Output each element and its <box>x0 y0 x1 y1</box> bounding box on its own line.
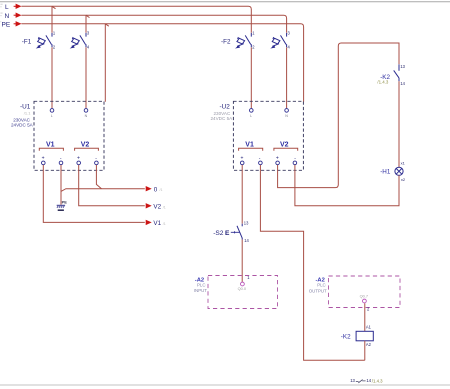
svg-text:/1.1: /1.1 <box>24 111 31 116</box>
xref stub L <box>0 4 2 7</box>
svg-text:+: + <box>42 155 45 161</box>
U1 output terminal 4 <box>95 161 99 165</box>
breaker F1 pole1 pin 2 <box>53 45 56 50</box>
svg-text:+: + <box>276 155 279 161</box>
U2 output group label V2 <box>280 141 289 148</box>
svg-text:L: L <box>51 114 53 118</box>
breaker F2 label <box>221 38 231 45</box>
U2 value 230VAC <box>214 111 231 116</box>
svg-text:/1.4.3: /1.4.3 <box>372 378 383 383</box>
U2 terminal N circle <box>285 109 289 118</box>
contact K2 pin 14 <box>400 81 405 86</box>
source arrow L <box>14 4 22 9</box>
U2 output terminal 1 <box>240 161 244 165</box>
wire U2 t1 to S2 <box>241 165 243 224</box>
svg-text:13: 13 <box>400 64 405 69</box>
PLC input pin 1 <box>247 275 250 280</box>
PLC output terminal circle <box>363 299 367 303</box>
wire F2 pole1 to U2 terminal L <box>250 47 252 108</box>
U1 xref <box>24 111 31 116</box>
net arrow V1 <box>146 220 166 228</box>
wire U2 t3 up to K2 contact <box>278 43 399 188</box>
svg-text:3: 3 <box>87 31 90 36</box>
U1 terminal N circle <box>84 109 88 118</box>
svg-text:1: 1 <box>53 31 56 36</box>
svg-text:-K2: -K2 <box>341 334 351 341</box>
svg-text:-: - <box>259 155 261 161</box>
wire PE bus <box>21 24 303 102</box>
svg-text:-: - <box>294 155 296 161</box>
svg-text:230VAC: 230VAC <box>214 111 231 116</box>
breaker F2 pole1 pin 2 <box>252 45 255 50</box>
U2 V2 bracket <box>274 148 298 150</box>
wire U1 t2 down to junction <box>61 165 145 192</box>
wire L bus <box>21 6 251 32</box>
svg-text:-: - <box>60 155 62 161</box>
wire U1 t1 to V1 arrow <box>43 165 145 223</box>
svg-text:V2: V2 <box>280 141 289 148</box>
wire PLC output to K2 coil <box>364 303 366 331</box>
svg-text:V2: V2 <box>153 204 161 211</box>
svg-text:E: E <box>225 230 230 237</box>
svg-text:PLC: PLC <box>317 283 326 288</box>
relay coil K2 <box>356 331 373 341</box>
svg-text:L: L <box>5 4 9 11</box>
svg-text:OUTPUT: OUTPUT <box>309 289 327 294</box>
source arrow N <box>14 13 22 18</box>
U1 output terminal 1 <box>42 161 46 165</box>
breaker F2 pole2 pin 4 <box>288 45 291 50</box>
PLC output address Q0.7 <box>360 294 368 299</box>
U1 output group label V2 <box>81 141 90 148</box>
breaker F1 pole2 pin 3 <box>87 31 90 36</box>
lamp H1 pin x1 <box>401 160 406 165</box>
U2 output terminal 3 <box>276 161 280 165</box>
PLC output label PLC <box>317 283 326 288</box>
wire U1 t2 to ground <box>60 191 62 204</box>
switch S2 label <box>213 230 230 237</box>
U2 V1 bracket <box>239 148 263 150</box>
svg-text:14: 14 <box>244 238 249 243</box>
ground PE symbol <box>57 205 65 210</box>
svg-text:x2: x2 <box>401 177 406 182</box>
relay contact K2 <box>394 64 399 81</box>
svg-text:N: N <box>5 13 10 20</box>
svg-text:14: 14 <box>400 81 405 86</box>
wire tap N to F1 pole2 <box>86 15 90 33</box>
svg-text:x1: x1 <box>401 160 406 165</box>
node PE label <box>2 21 11 28</box>
power supply U1 label <box>20 104 31 111</box>
lamp H1 <box>395 167 403 175</box>
xref stub N <box>0 13 2 16</box>
U1 value 230VAC <box>13 118 30 123</box>
U1 output terminal 2 <box>59 161 63 165</box>
K2 contact mirror xref <box>372 378 383 383</box>
svg-text:PE: PE <box>2 21 11 28</box>
breaker F1 pole 2 <box>70 33 86 49</box>
coil K2 label <box>341 334 351 341</box>
svg-text:-U2: -U2 <box>220 104 231 111</box>
wire K2 contact to lamp H1 <box>398 81 400 167</box>
breaker F2 pole 1 <box>235 33 251 49</box>
svg-text:1: 1 <box>252 31 255 36</box>
wire tap L to F1 pole1 <box>52 6 56 32</box>
wire N bus <box>21 15 286 33</box>
net arrow V2 <box>146 203 166 211</box>
svg-text:0: 0 <box>154 186 158 193</box>
PLC input box A2 <box>208 276 278 309</box>
wire U1 t4 joins 0 line <box>96 165 101 189</box>
contact K2 xref <box>377 80 389 85</box>
svg-text:2: 2 <box>53 45 56 50</box>
svg-text:-S2: -S2 <box>213 230 224 237</box>
svg-text:-U1: -U1 <box>20 104 31 111</box>
K2 contact mirror 13 <box>350 378 355 383</box>
wire K2 coil to return <box>364 341 366 361</box>
power supply U2 box <box>233 101 303 170</box>
svg-text:24VDC 5A: 24VDC 5A <box>211 116 234 121</box>
svg-text:2: 2 <box>252 45 255 50</box>
svg-text:Q0.7: Q0.7 <box>360 294 368 299</box>
breaker F1 label <box>22 38 32 45</box>
PLC output label A2 <box>316 277 325 283</box>
switch S2 actuator <box>231 231 240 233</box>
svg-text:1: 1 <box>247 275 250 280</box>
PLC input terminal circle <box>241 282 245 286</box>
wire lamp H1 return to U2 t4 <box>295 165 399 206</box>
PLC output box A2 <box>329 276 401 308</box>
svg-text:13: 13 <box>350 378 355 383</box>
PLC input label A2 <box>195 277 204 283</box>
U1 output terminal 3 <box>77 161 81 165</box>
svg-text:4: 4 <box>87 45 90 50</box>
breaker F1 pole1 pin 1 <box>53 31 56 36</box>
U2 polarity signs <box>241 155 297 161</box>
svg-text:13: 13 <box>244 220 249 225</box>
svg-text:4: 4 <box>288 45 291 50</box>
power supply U1 box <box>34 101 104 170</box>
U1 terminal L circle <box>50 109 54 118</box>
svg-text:/1: /1 <box>160 188 163 192</box>
PLC input label PLC <box>197 282 206 287</box>
K2 contact mirror symbol <box>356 380 366 383</box>
svg-text:+: + <box>77 155 80 161</box>
svg-text:3: 3 <box>288 31 291 36</box>
svg-text:/1.4.3: /1.4.3 <box>377 80 389 85</box>
coil K2 pin A2 <box>366 342 372 347</box>
svg-text:A2: A2 <box>366 342 372 347</box>
svg-text:-F1: -F1 <box>22 38 32 45</box>
ground PE label <box>62 200 68 205</box>
breaker F2 pole1 pin 1 <box>252 31 255 36</box>
svg-text:-F2: -F2 <box>221 38 231 45</box>
U2 terminal L circle <box>250 109 254 118</box>
svg-text:/1: /1 <box>163 222 166 226</box>
wire F1 pole2 to U1 terminal N <box>85 47 87 108</box>
switch S2 contact <box>237 224 242 240</box>
wire F1 pole1 to U1 terminal L <box>51 47 53 108</box>
wire U1 t3 to V2 arrow <box>79 165 145 206</box>
PLC input label INPUT <box>194 288 207 293</box>
svg-text:Q0.0: Q0.0 <box>238 286 247 291</box>
svg-text:-H1: -H1 <box>380 169 391 176</box>
contact K2 label <box>380 74 390 81</box>
svg-text:V1: V1 <box>46 141 55 148</box>
PLC input address I0.0 <box>238 286 247 291</box>
contact K2 pin 13 <box>400 64 405 69</box>
lamp H1 label <box>380 169 391 176</box>
svg-text:-: - <box>95 155 97 161</box>
frame bottom border line <box>0 384 450 386</box>
breaker F2 pole 2 <box>270 33 286 49</box>
wire tap PE down at U1 <box>105 24 109 102</box>
switch S2 pin 13 <box>244 220 249 225</box>
node L label <box>5 4 9 11</box>
svg-text:V1: V1 <box>153 220 161 227</box>
lamp H1 pin x2 <box>401 177 406 182</box>
K2 contact mirror 14 <box>366 378 371 383</box>
switch S2 pin 14 <box>244 238 249 243</box>
coil K2 pin A1 <box>366 325 372 330</box>
net arrow 0 <box>146 186 163 193</box>
svg-text:PLC: PLC <box>197 282 206 287</box>
power supply U2 label <box>220 104 231 111</box>
svg-text:A1: A1 <box>366 325 372 330</box>
svg-text:PE: PE <box>62 200 68 205</box>
wire F2 pole2 to U2 terminal N <box>286 47 288 108</box>
U1 value 24VDC 5A <box>11 123 34 128</box>
PLC output pin 2 <box>367 307 370 312</box>
PLC output label OUTPUT <box>309 289 327 294</box>
svg-text:L: L <box>250 114 252 118</box>
frame top border line <box>0 1 450 3</box>
breaker F1 pole 1 <box>36 33 52 49</box>
source arrow PE <box>14 21 22 26</box>
breaker F2 pole2 pin 3 <box>288 31 291 36</box>
breaker F1 pole2 pin 4 <box>87 45 90 50</box>
svg-text:24VDC 5A: 24VDC 5A <box>11 123 34 128</box>
U2 output terminal 2 <box>259 161 263 165</box>
U2 output group label V1 <box>245 141 254 148</box>
svg-text:N: N <box>85 114 88 118</box>
xref stub PE <box>0 21 2 23</box>
svg-text:INPUT: INPUT <box>194 288 207 293</box>
U1 output group label V1 <box>46 141 55 148</box>
U2 value 24VDC 5A <box>211 116 234 121</box>
U1 V1 bracket <box>39 148 63 150</box>
wire U2 t2 to K2 coil return <box>260 165 364 360</box>
U1 V2 bracket <box>75 148 99 150</box>
svg-text:V1: V1 <box>245 141 254 148</box>
U1 polarity signs <box>42 155 98 161</box>
svg-text:V2: V2 <box>81 141 90 148</box>
node N label <box>5 13 10 20</box>
svg-text:N: N <box>285 114 288 118</box>
svg-text:/1: /1 <box>163 205 166 209</box>
svg-text:+: + <box>241 155 244 161</box>
U2 output terminal 4 <box>293 161 297 165</box>
wire S2 to PLC input <box>241 240 243 282</box>
